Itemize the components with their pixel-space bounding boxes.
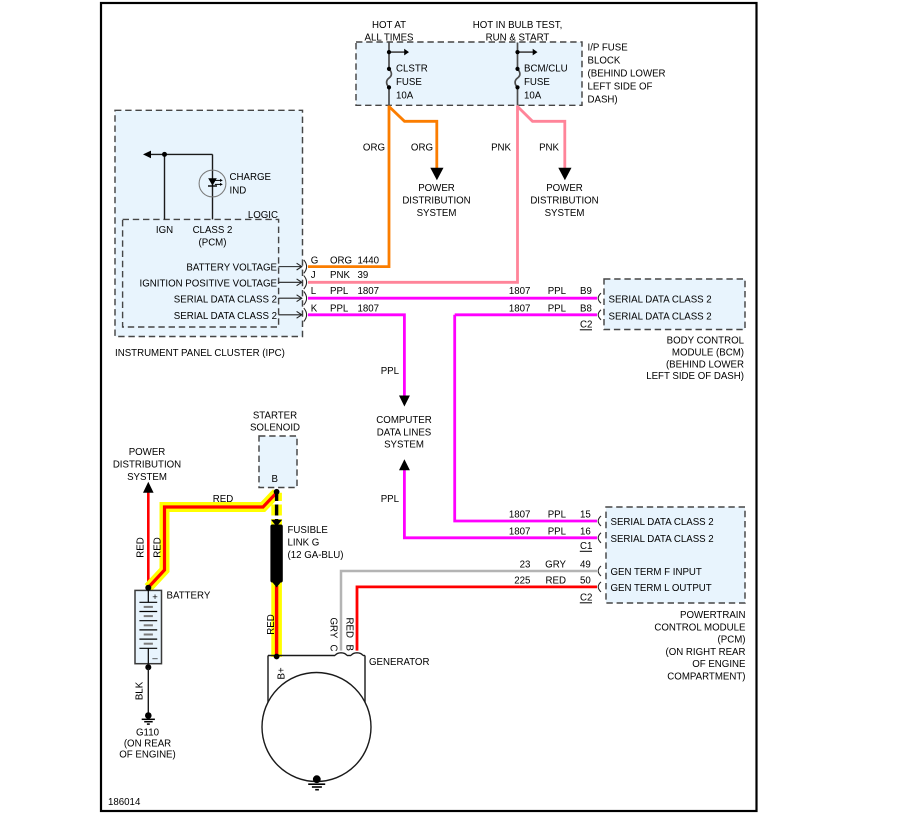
svg-text:RED: RED (343, 618, 354, 638)
svg-text:J: J (311, 270, 316, 281)
svg-text:SOLENOID: SOLENOID (250, 423, 300, 434)
svg-text:RUN & START: RUN & START (486, 32, 550, 43)
svg-text:(BEHIND LOWER: (BEHIND LOWER (588, 69, 666, 80)
svg-text:CHARGE: CHARGE (230, 172, 272, 183)
svg-text:1807: 1807 (509, 304, 531, 315)
svg-text:16: 16 (580, 527, 591, 538)
svg-text:CLASS 2: CLASS 2 (193, 225, 233, 236)
svg-text:1807: 1807 (509, 510, 531, 521)
svg-text:SERIAL DATA CLASS 2: SERIAL DATA CLASS 2 (174, 311, 277, 322)
svg-text:LEFT SIDE OF: LEFT SIDE OF (588, 82, 653, 93)
svg-text:PPL: PPL (330, 304, 349, 315)
svg-text:DATA LINES: DATA LINES (377, 427, 432, 438)
svg-text:SERIAL DATA CLASS 2: SERIAL DATA CLASS 2 (174, 294, 277, 305)
svg-text:BATTERY: BATTERY (167, 591, 211, 602)
svg-text:LINK G: LINK G (288, 538, 320, 549)
svg-text:DASH): DASH) (588, 95, 618, 106)
svg-text:IND: IND (230, 186, 247, 197)
svg-text:G: G (311, 255, 319, 266)
svg-text:B8: B8 (580, 304, 592, 315)
svg-text:39: 39 (358, 270, 369, 281)
svg-text:OF ENGINE: OF ENGINE (692, 659, 746, 670)
svg-text:DISTRIBUTION: DISTRIBUTION (402, 195, 470, 206)
svg-text:B9: B9 (580, 286, 592, 297)
svg-text:49: 49 (580, 560, 591, 571)
svg-text:1807: 1807 (358, 304, 380, 315)
svg-text:C2: C2 (580, 593, 592, 604)
svg-text:B+: B+ (277, 667, 288, 679)
svg-text:B: B (343, 645, 354, 651)
svg-text:RED: RED (152, 537, 163, 557)
svg-text:(PCM): (PCM) (199, 237, 227, 248)
svg-text:RED: RED (213, 494, 233, 505)
svg-text:C1: C1 (580, 541, 592, 552)
svg-text:1807: 1807 (509, 527, 531, 538)
svg-text:FUSE: FUSE (396, 77, 422, 88)
svg-text:SERIAL DATA CLASS 2: SERIAL DATA CLASS 2 (609, 311, 712, 322)
svg-text:PPL: PPL (330, 286, 349, 297)
svg-text:COMPARTMENT): COMPARTMENT) (667, 672, 745, 683)
svg-text:1807: 1807 (509, 286, 531, 297)
svg-text:K: K (311, 304, 318, 315)
svg-text:BATTERY VOLTAGE: BATTERY VOLTAGE (186, 263, 277, 274)
svg-text:C2: C2 (580, 320, 592, 331)
svg-text:GRY: GRY (328, 618, 339, 639)
svg-text:(12 GA-BLU): (12 GA-BLU) (288, 550, 344, 561)
svg-text:HOT AT: HOT AT (372, 20, 406, 31)
svg-text:BCM/CLU: BCM/CLU (524, 64, 568, 75)
svg-text:CONTROL MODULE: CONTROL MODULE (654, 622, 746, 633)
svg-text:RED: RED (546, 576, 566, 587)
svg-text:ALL TIMES: ALL TIMES (365, 32, 415, 43)
svg-text:CLSTR: CLSTR (396, 64, 428, 75)
svg-text:GRY: GRY (545, 560, 566, 571)
svg-text:LEFT SIDE OF DASH): LEFT SIDE OF DASH) (646, 371, 744, 382)
svg-text:1440: 1440 (358, 255, 380, 266)
svg-text:FUSIBLE: FUSIBLE (288, 525, 329, 536)
svg-text:POWER: POWER (546, 183, 583, 194)
svg-text:(ON RIGHT REAR: (ON RIGHT REAR (665, 647, 745, 658)
svg-text:SYSTEM: SYSTEM (417, 208, 457, 219)
svg-text:1807: 1807 (358, 286, 380, 297)
svg-text:GEN TERM F INPUT: GEN TERM F INPUT (611, 567, 702, 578)
svg-text:INSTRUMENT PANEL CLUSTER (IPC): INSTRUMENT PANEL CLUSTER (IPC) (115, 348, 285, 359)
svg-text:(ON REAR: (ON REAR (124, 739, 171, 750)
svg-text:+: + (152, 592, 158, 603)
svg-text:PPL: PPL (548, 304, 567, 315)
svg-text:C: C (328, 645, 339, 652)
svg-text:MODULE (BCM): MODULE (BCM) (672, 348, 744, 359)
svg-text:–: – (152, 653, 158, 664)
svg-text:RED: RED (266, 614, 277, 634)
svg-text:FUSE: FUSE (524, 77, 550, 88)
svg-text:PPL: PPL (381, 494, 400, 505)
svg-text:GEN TERM L OUTPUT: GEN TERM L OUTPUT (611, 583, 712, 594)
svg-text:(PCM): (PCM) (718, 635, 746, 646)
svg-text:BLOCK: BLOCK (588, 56, 621, 67)
svg-text:DISTRIBUTION: DISTRIBUTION (113, 460, 181, 471)
svg-text:23: 23 (520, 560, 531, 571)
svg-text:L: L (311, 286, 317, 297)
svg-text:ORG: ORG (330, 255, 352, 266)
svg-text:I/P FUSE: I/P FUSE (588, 43, 629, 54)
svg-text:PNK: PNK (330, 270, 350, 281)
svg-text:186014: 186014 (108, 797, 141, 808)
svg-text:PPL: PPL (381, 366, 400, 377)
svg-text:PPL: PPL (548, 510, 567, 521)
svg-text:ORG: ORG (363, 142, 385, 153)
svg-text:B: B (272, 474, 278, 485)
svg-text:GENERATOR: GENERATOR (369, 657, 429, 668)
svg-text:SERIAL DATA CLASS 2: SERIAL DATA CLASS 2 (611, 534, 714, 545)
svg-text:10A: 10A (396, 91, 414, 102)
svg-text:15: 15 (580, 510, 591, 521)
svg-text:BLK: BLK (134, 681, 145, 700)
svg-text:LOGIC: LOGIC (248, 210, 278, 221)
svg-text:COMPUTER: COMPUTER (376, 415, 431, 426)
svg-text:OF ENGINE): OF ENGINE) (119, 750, 176, 761)
svg-text:POWER: POWER (129, 447, 166, 458)
svg-text:IGNITION POSITIVE VOLTAGE: IGNITION POSITIVE VOLTAGE (140, 278, 278, 289)
svg-text:IGN: IGN (156, 225, 173, 236)
svg-text:G110: G110 (136, 728, 160, 739)
svg-text:PNK: PNK (491, 142, 511, 153)
svg-text:DISTRIBUTION: DISTRIBUTION (530, 195, 598, 206)
svg-text:PPL: PPL (548, 286, 567, 297)
svg-text:SERIAL DATA CLASS 2: SERIAL DATA CLASS 2 (611, 517, 714, 528)
svg-text:SYSTEM: SYSTEM (384, 440, 424, 451)
svg-text:STARTER: STARTER (253, 410, 297, 421)
svg-text:PPL: PPL (548, 527, 567, 538)
svg-text:POWERTRAIN: POWERTRAIN (680, 610, 746, 621)
svg-text:50: 50 (580, 576, 591, 587)
svg-text:ORG: ORG (411, 142, 433, 153)
svg-text:HOT IN BULB TEST,: HOT IN BULB TEST, (473, 20, 563, 31)
svg-text:POWER: POWER (418, 183, 455, 194)
svg-text:225: 225 (514, 576, 530, 587)
svg-text:SYSTEM: SYSTEM (127, 472, 167, 483)
svg-text:RED: RED (136, 537, 147, 557)
svg-text:PNK: PNK (539, 142, 559, 153)
svg-text:BODY CONTROL: BODY CONTROL (667, 336, 745, 347)
svg-text:SERIAL DATA CLASS 2: SERIAL DATA CLASS 2 (609, 294, 712, 305)
svg-text:(BEHIND LOWER: (BEHIND LOWER (666, 359, 744, 370)
svg-text:SYSTEM: SYSTEM (545, 208, 585, 219)
svg-text:10A: 10A (524, 91, 542, 102)
